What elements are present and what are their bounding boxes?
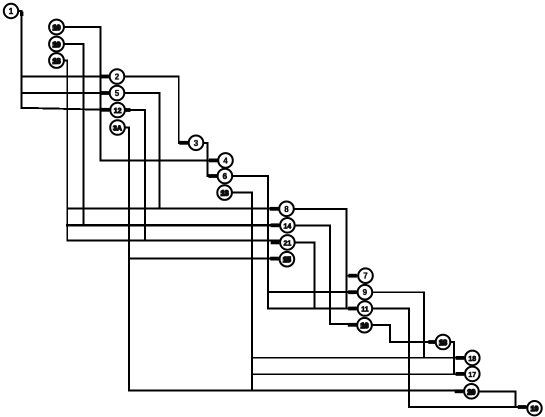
svg-text:18: 18 — [439, 340, 447, 347]
svg-text:9: 9 — [363, 288, 368, 297]
svg-text:11: 11 — [361, 307, 369, 314]
svg-text:15: 15 — [283, 257, 291, 264]
svg-text:3A: 3A — [113, 126, 122, 133]
svg-text:10: 10 — [53, 25, 61, 32]
svg-text:1: 1 — [9, 7, 14, 16]
svg-text:6: 6 — [223, 172, 228, 181]
svg-text:17: 17 — [468, 372, 476, 379]
svg-text:20: 20 — [468, 389, 476, 396]
svg-text:18: 18 — [468, 356, 476, 363]
svg-text:5: 5 — [115, 89, 120, 98]
svg-text:8: 8 — [284, 205, 289, 214]
svg-text:12: 12 — [114, 108, 122, 115]
svg-text:16: 16 — [361, 323, 369, 330]
svg-text:7: 7 — [363, 272, 368, 281]
svg-text:3: 3 — [194, 139, 199, 148]
svg-text:18: 18 — [53, 59, 61, 66]
svg-text:21: 21 — [284, 240, 292, 247]
svg-text:19: 19 — [53, 42, 61, 49]
svg-text:19: 19 — [531, 406, 539, 413]
svg-text:13: 13 — [221, 191, 229, 198]
svg-text:14: 14 — [284, 223, 292, 230]
svg-text:2: 2 — [115, 73, 120, 82]
svg-text:4: 4 — [223, 156, 228, 165]
